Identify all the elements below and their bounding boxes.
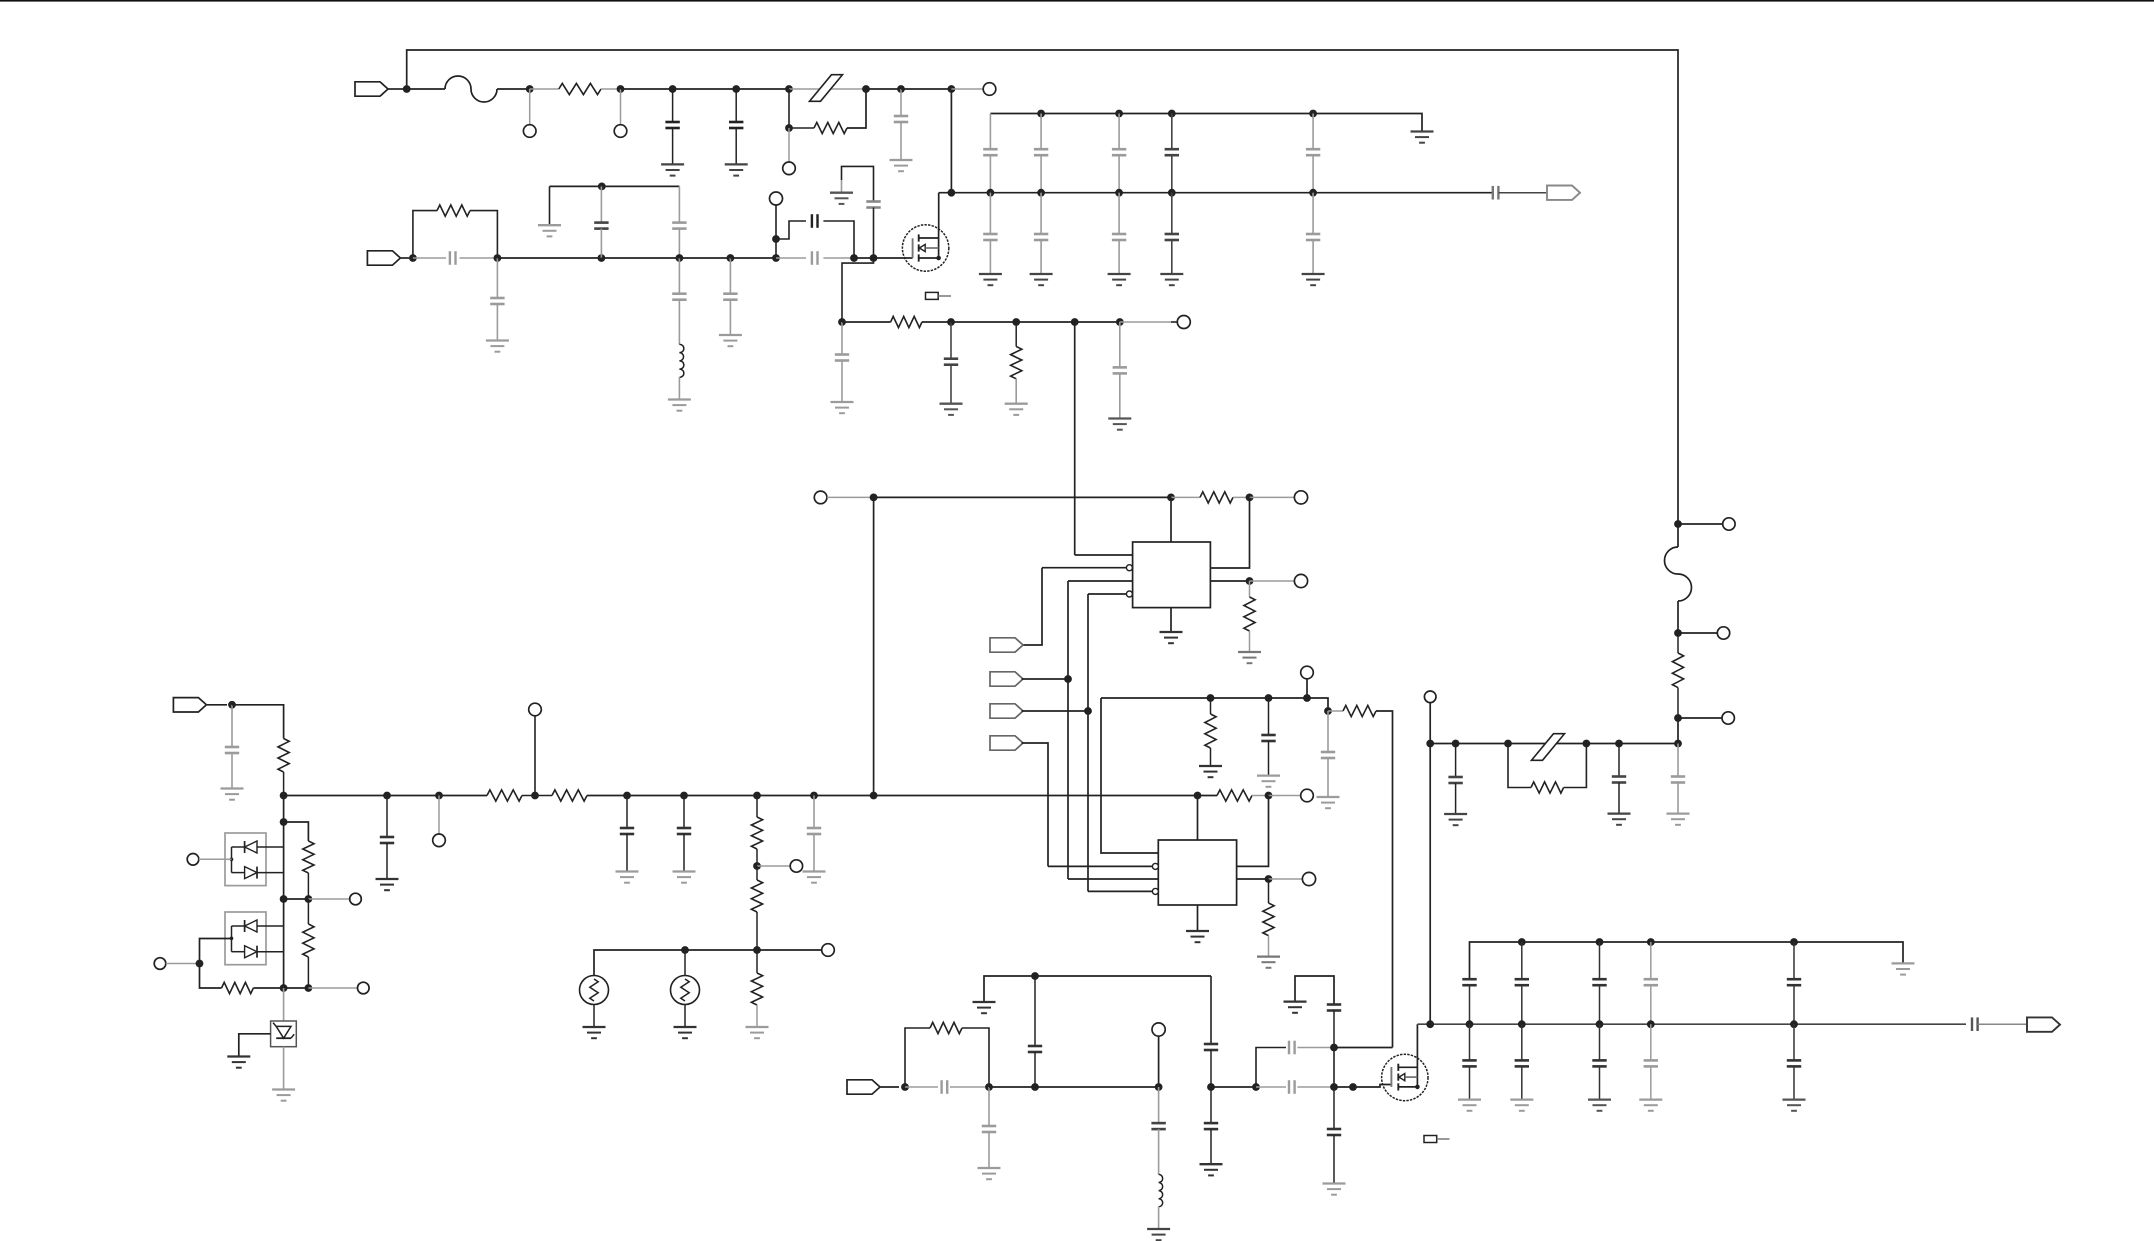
wire U2 pinX: [1048, 865, 1152, 867]
wire zener tap: [239, 1034, 271, 1057]
capacitor bank-top C2 lead2: [1118, 155, 1120, 193]
node N12: [676, 254, 684, 262]
pin bubble U2 pinZ: [1152, 888, 1158, 894]
wire row899: [284, 898, 309, 900]
node N26: [1064, 675, 1072, 683]
capacitor C23: [1448, 777, 1462, 783]
wire U2 right pin2: [1237, 878, 1269, 880]
wire U2 pinZ route: [1087, 711, 1089, 891]
node RV1: [1674, 520, 1682, 528]
node B1: [280, 792, 288, 800]
node N20: [1071, 318, 1079, 326]
test point TP15: [1302, 872, 1315, 885]
wire bus3 gnd lead: [549, 186, 551, 225]
capacitor C30: [1204, 1044, 1218, 1050]
node N24: [1246, 494, 1254, 502]
wire E1 right: [232, 705, 284, 739]
test point TP21 stub: [308, 898, 349, 900]
wire drop 874: [873, 497, 875, 795]
snubber2 wire: [1295, 976, 1334, 1005]
node B11: [1194, 792, 1202, 800]
wire TP22 lead: [166, 963, 200, 965]
wire bus2 seg3: [1252, 795, 1269, 797]
resistor R23: [930, 1022, 962, 1033]
ground C2: [725, 164, 748, 175]
test point TP8 stub: [1250, 496, 1295, 498]
connector VOUT2 tag: [2027, 1017, 2060, 1031]
capacitor C28 lead: [988, 1087, 990, 1126]
capacitor bank2-top C1 lead2: [1521, 985, 1523, 1024]
ground bank2 C2: [1588, 1100, 1611, 1111]
resistor R18: [278, 739, 289, 773]
capacitor bank-top C1 lead2: [1040, 155, 1042, 193]
fuse F1: [445, 76, 497, 102]
node E6: [280, 984, 288, 992]
wire E2 branch: [284, 822, 309, 841]
capacitor C16: [1113, 367, 1127, 373]
pin bubble U2 pinX: [1152, 863, 1158, 869]
ground U2: [1186, 931, 1209, 942]
test point TP21: [350, 893, 362, 905]
wire bus4: [874, 496, 1171, 498]
capacitor C31 lead2: [1158, 1129, 1160, 1174]
test point TP5: [770, 192, 783, 205]
capacitor C15 lead2: [950, 365, 952, 404]
node R3c: [1504, 740, 1512, 748]
capacitor bank2-top C3: [1644, 979, 1658, 985]
capacitor C14 lead2: [841, 361, 843, 403]
capacitor bank-bot C4 lead: [1312, 193, 1314, 234]
wire rail1 seg7: [736, 88, 789, 90]
ground C22: [803, 872, 826, 883]
wire row3 seg6: [1120, 321, 1171, 323]
test point TP13: [790, 860, 802, 872]
wire U1 pinC: [1068, 580, 1133, 582]
node rail2 dot 3: [1168, 189, 1176, 197]
resistor R8 lead: [1210, 748, 1212, 766]
capacitor C36: [1327, 1129, 1341, 1135]
capacitor bank2-top C4 lead0: [1793, 942, 1795, 979]
ground C16: [1108, 419, 1131, 430]
capacitor bank-bot C3 lead: [1171, 193, 1173, 234]
inductor L1 lead: [678, 377, 680, 399]
wire drop B1: [283, 796, 285, 900]
wire rail1 seg6: [673, 88, 737, 90]
capacitor bank2-bot C1 lead2: [1521, 1066, 1523, 1099]
test point TP9 stub: [1250, 580, 1295, 582]
node N6b: [785, 124, 793, 132]
node N14: [772, 235, 780, 243]
capacitor C7 lead: [600, 186, 602, 222]
capacitor bank2-bot C2: [1592, 1060, 1606, 1066]
wire row3 seg3: [951, 321, 1016, 323]
resistor R3 loop: [413, 211, 437, 258]
capacitor C18 lead2: [1327, 758, 1329, 797]
node M1d: [901, 1083, 909, 1091]
capacitor C8: [672, 223, 686, 229]
wire EN3 to N: [1022, 710, 1089, 712]
capacitor C9 lead: [678, 258, 680, 294]
test point TP9: [1294, 574, 1307, 587]
resistor R16: [1672, 633, 1683, 688]
node N21: [1116, 318, 1124, 326]
capacitor bank-bot C0: [983, 234, 997, 240]
capacitor C17 lead2: [1268, 741, 1270, 776]
resistor R17 bridge: [1508, 744, 1586, 794]
capacitor C32 lead2: [1210, 1129, 1212, 1164]
wire line2 seg2: [601, 257, 679, 259]
ground C24: [1608, 814, 1631, 825]
node rail4 3: [1647, 1020, 1655, 1028]
wire U1 gnd pin: [1170, 608, 1172, 632]
node T2: [753, 946, 761, 954]
wire bus5 drop: [1210, 976, 1212, 1044]
wire gate M2: [1334, 1086, 1353, 1088]
node M8d: [1330, 1044, 1338, 1052]
test point TP11 stub: [438, 796, 440, 835]
resistor R19: [303, 841, 314, 873]
capacitor C22 lead: [813, 796, 815, 829]
capacitor bank-bot C3 lead2: [1171, 240, 1173, 274]
resistor R2 lead: [789, 127, 814, 129]
wire drop 1430: [1429, 744, 1431, 1025]
node N4: [669, 85, 677, 93]
wire bus2 seg2: [587, 795, 1217, 797]
node bus dot 3: [1168, 110, 1176, 118]
capacitor bank-bot C4: [1306, 234, 1320, 240]
wire rail4: [1417, 1023, 1966, 1025]
wire line2 seg3: [679, 257, 730, 259]
wire TP19 lead: [1429, 703, 1431, 744]
capacitor C33 branch2: [1297, 1047, 1334, 1049]
resistor R4: [891, 316, 922, 327]
node M5d: [1155, 1083, 1163, 1091]
wire rail1 seg1: [407, 88, 445, 90]
test point TP2: [614, 125, 627, 138]
ground C10: [719, 335, 742, 346]
capacitor C27 series: [905, 1080, 989, 1094]
node N15: [772, 254, 780, 262]
node N30: [1303, 694, 1311, 702]
capacitor C31 lead: [1158, 1087, 1160, 1123]
ground bank C1: [1030, 274, 1053, 285]
test point TP6: [1177, 316, 1190, 329]
capacitor C31: [1151, 1123, 1165, 1129]
test point TP16: [1723, 518, 1735, 530]
node rail2 dot 1: [1037, 189, 1045, 197]
resistor R5: [1011, 322, 1022, 379]
wire row988: [253, 987, 308, 989]
wire right vertical3: [1677, 688, 1679, 718]
ground zener tap: [227, 1057, 250, 1068]
capacitor bank-bot C3: [1165, 234, 1179, 240]
wire caps node to drop: [1334, 1047, 1393, 1049]
wire rail1 seg2: [497, 88, 530, 90]
capacitor bank-bot C2 lead: [1118, 193, 1120, 234]
node N3: [617, 85, 625, 93]
wire bus1: [1101, 698, 1328, 711]
capacitor bank-bot C0 lead: [989, 193, 991, 234]
node N2: [526, 85, 534, 93]
capacitor bank2-bot C3: [1644, 1060, 1658, 1066]
ground C20: [616, 872, 639, 883]
node N10: [494, 254, 502, 262]
node B3: [435, 792, 443, 800]
node J2 junction: [409, 254, 417, 262]
wire TP12 lead: [534, 716, 536, 796]
wire row3 seg4: [1016, 321, 1074, 323]
wire N14 drop: [775, 239, 777, 258]
ground C18: [1317, 797, 1340, 808]
capacitor bank-top C2: [1112, 149, 1126, 155]
resistor R1: [559, 83, 601, 94]
resistor R15: [1263, 879, 1274, 936]
node M3d: [1031, 1083, 1039, 1091]
capacitor C16 lead: [1119, 322, 1121, 367]
node N7: [862, 85, 870, 93]
connector EN3 tag: [990, 704, 1023, 718]
node N6: [785, 85, 793, 93]
connector J3 input tag: [173, 698, 227, 712]
ground L2: [1147, 1229, 1170, 1240]
node N16: [850, 254, 858, 262]
capacitor bank-top C3 lead2: [1171, 155, 1173, 193]
ground C25: [1667, 814, 1690, 825]
node rail4 2: [1596, 1020, 1604, 1028]
capacitor C13 lead: [873, 208, 875, 259]
node N17: [870, 254, 878, 262]
wire bus5: [984, 976, 1211, 1002]
node rail4 4: [1790, 1020, 1798, 1028]
capacitor C36 lead2: [1333, 1135, 1335, 1184]
test point TP18 stub: [1678, 717, 1722, 719]
capacitor bank2-top C0 lead2: [1469, 985, 1471, 1024]
capacitor C29: [1028, 1046, 1042, 1052]
node N27: [1084, 707, 1092, 715]
node B7: [753, 792, 761, 800]
wire line4 seg3: [1211, 1086, 1256, 1088]
wire U1 pinD: [1088, 593, 1126, 595]
wire cap-bank bus: [990, 114, 1422, 132]
capacitor C20 lead: [626, 796, 628, 829]
thermistor RT1: [580, 976, 609, 1005]
capacitor bank2-top C0: [1462, 979, 1476, 985]
inductor L2: [1159, 1174, 1163, 1206]
test point TP18: [1722, 712, 1734, 724]
resistor R15 lead: [1268, 936, 1270, 957]
ground bus6 end: [1892, 963, 1915, 974]
wire line2 seg5: [854, 257, 874, 259]
test point TP1: [523, 125, 536, 138]
ground R22: [746, 1027, 769, 1038]
node R3d: [1583, 740, 1591, 748]
resistor R3: [437, 205, 470, 216]
capacitor bank2-top C1 lead0: [1521, 942, 1523, 979]
capacitor C23 lead2: [1455, 783, 1457, 814]
wire EN2 to N: [1022, 678, 1069, 680]
ground R5: [1005, 404, 1028, 415]
node bus6 1: [1518, 938, 1526, 946]
wire R19 lead: [307, 873, 309, 899]
capacitor C25 lead2: [1677, 783, 1679, 814]
node N23: [1167, 494, 1175, 502]
capacitor C21 lead2: [683, 834, 685, 872]
ground Z1: [272, 1090, 295, 1101]
capacitor C33: [1289, 1041, 1295, 1055]
capacitor C10 lead: [729, 258, 731, 294]
capacitor bank-top C3 lead: [1171, 114, 1173, 150]
ground bank C0: [979, 274, 1002, 285]
ground bank C4: [1302, 274, 1325, 285]
wire U2 right pin1: [1237, 796, 1269, 867]
ground C1: [661, 164, 684, 175]
wire TP5 lead: [775, 205, 777, 239]
capacitor bank-top C4 lead2: [1312, 155, 1314, 193]
ferrite bead FB2 slant box: [1532, 734, 1565, 761]
wire U1 pinD route: [1087, 594, 1089, 711]
capacitor C11 branch: [776, 221, 806, 239]
wire U1 right pin1: [1210, 497, 1249, 568]
ground bank2 C4: [1783, 1100, 1806, 1111]
node N19: [1012, 318, 1020, 326]
capacitor C33 branch: [1256, 1048, 1286, 1088]
wire line4 seg2: [1035, 1086, 1159, 1088]
capacitor bank-bot C2 lead2: [1118, 240, 1120, 274]
capacitor C19 lead: [386, 796, 388, 838]
resistor R23 loop2: [962, 1028, 989, 1087]
node bus6 4: [1790, 938, 1798, 946]
thermistor RT2 lead: [684, 950, 686, 976]
capacitor C9 lead2: [678, 300, 680, 345]
wire drop to rail2: [950, 89, 952, 193]
node N9: [948, 85, 956, 93]
node N8: [897, 85, 905, 93]
node rail2 dot 4: [1309, 189, 1317, 197]
node rail4 0: [1466, 1020, 1474, 1028]
capacitor C6: [490, 298, 504, 304]
capacitor C2 lead: [735, 89, 737, 122]
capacitor bank2-bot C1: [1515, 1060, 1529, 1066]
node N25: [1246, 577, 1254, 585]
ground C32: [1200, 1164, 1223, 1175]
ferrite bead FB1 slant box: [810, 75, 843, 102]
test point TP19: [1424, 691, 1436, 703]
resistor R12: [751, 796, 762, 850]
capacitor C21 lead: [683, 796, 685, 829]
capacitor C11 branch2: [823, 221, 854, 258]
wire top feedback run: [407, 50, 1678, 524]
capacitor C11: [812, 214, 818, 228]
ground RT1: [583, 1027, 606, 1038]
wire U1 top pin: [1170, 497, 1172, 542]
resistor R13: [751, 866, 762, 912]
wire Q2 drain: [1416, 1024, 1418, 1055]
capacitor bank2-bot C4 lead: [1793, 1024, 1795, 1060]
capacitor C29 lead: [1034, 976, 1036, 1046]
test point TP11: [433, 834, 446, 847]
ground bank C3: [1160, 274, 1183, 285]
ground R7: [1238, 652, 1261, 663]
connector EN1 tag: [990, 638, 1023, 652]
ground bank2 C1: [1510, 1100, 1533, 1111]
ground bank C2: [1108, 274, 1131, 285]
node bus6 3: [1647, 938, 1655, 946]
connector EN4 tag: [990, 736, 1023, 750]
test point TP17 stub: [1678, 632, 1717, 634]
wire bus1 to U2 pinW: [1101, 698, 1158, 853]
capacitor C15 lead: [950, 322, 952, 359]
node M2d: [985, 1083, 993, 1091]
capacitor bank-top C4: [1306, 149, 1320, 155]
resistor R9: [1343, 705, 1376, 716]
pin bubble U1 pinB: [1126, 565, 1132, 571]
net stub Q1: [926, 292, 952, 299]
ground bus end: [1411, 132, 1434, 143]
node rail2 dot 2: [1115, 189, 1123, 197]
capacitor C7 lead2: [600, 229, 602, 258]
capacitor C1: [665, 122, 679, 128]
capacitor C21: [677, 828, 691, 834]
node bus dot 1: [1037, 110, 1045, 118]
test point TP8: [1294, 491, 1307, 504]
node N22: [870, 494, 878, 502]
node bus6 2: [1596, 938, 1604, 946]
capacitor bank2-bot C3 lead2: [1650, 1066, 1652, 1099]
capacitor bank2-top C4 lead2: [1793, 985, 1795, 1024]
test point TP3 stub: [788, 128, 790, 162]
node rail2 from rail1: [948, 189, 956, 197]
resistor R6 lead2: [1233, 496, 1250, 498]
node E1: [228, 701, 236, 709]
capacitor C17: [1261, 735, 1275, 741]
test point TP3: [783, 162, 796, 175]
transistor Q1 mosfet: [902, 225, 948, 271]
resistor R3 loop2: [470, 211, 497, 258]
capacitor bank-bot C4 lead2: [1312, 240, 1314, 274]
wire rail2 drop to mosfet: [938, 193, 940, 228]
test point TP2 stub: [620, 89, 622, 125]
wire R13 lead: [756, 912, 758, 950]
test point TP14: [1301, 789, 1314, 802]
ground C23: [1444, 814, 1467, 825]
pin bubble U1 pinD: [1126, 591, 1132, 597]
capacitor bank-bot C1 lead2: [1040, 240, 1042, 274]
resistor R23 loop: [905, 1028, 930, 1087]
capacitor C19 lead2: [386, 843, 388, 879]
transistor Q2 mosfet: [1382, 1054, 1428, 1100]
capacitor C30 lead2: [1210, 1050, 1212, 1087]
capacitor bank-top C0: [983, 149, 997, 155]
wire U1 pinB route: [1022, 568, 1043, 645]
test point TP23 stub: [308, 987, 357, 989]
node M4d: [1031, 972, 1039, 980]
capacitor bank2-bot C2 lead2: [1599, 1066, 1601, 1099]
node M9d: [1330, 1083, 1338, 1091]
capacitor C8 lead2: [678, 229, 680, 258]
top border line: [0, 0, 2154, 2]
test point TP10: [1301, 666, 1314, 679]
test point TP15 stub: [1269, 878, 1303, 880]
capacitor C20 lead2: [626, 834, 628, 872]
capacitor C22: [807, 828, 821, 834]
node N31: [1324, 707, 1332, 715]
node R3b: [1452, 740, 1460, 748]
capacitor bank2-bot C4: [1787, 1060, 1801, 1066]
snubber wire: [842, 166, 874, 201]
test point TP16 stub: [1678, 523, 1723, 525]
capacitor C12 series: [776, 251, 854, 265]
node E3: [280, 895, 288, 903]
